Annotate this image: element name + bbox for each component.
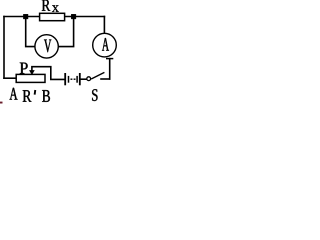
wire rheostat left xyxy=(4,77,16,79)
wire ammeter bottom to corner xyxy=(109,59,111,79)
label R' xyxy=(23,90,32,101)
wire voltmeter branch left xyxy=(26,17,35,47)
wire left vertical xyxy=(3,17,5,79)
node junction dot left xyxy=(23,14,28,19)
stray mark bottom-left xyxy=(0,102,3,104)
label P xyxy=(20,63,28,74)
resistor Rx box xyxy=(40,13,65,20)
battery cells xyxy=(65,73,80,85)
switch S blade xyxy=(91,72,104,79)
wire voltmeter branch right xyxy=(59,17,74,47)
ammeter bottom terminal bar xyxy=(106,58,113,60)
rheostat slider arrow P xyxy=(29,70,34,74)
wire right vertical to ammeter xyxy=(103,17,105,34)
rheostat R' resistance box xyxy=(16,74,45,82)
wire switch contact to corner xyxy=(101,78,110,80)
node junction dot right xyxy=(71,14,76,19)
label S xyxy=(92,89,97,101)
wire top xyxy=(4,16,104,18)
label B terminal xyxy=(42,90,50,102)
label A terminal xyxy=(10,88,18,100)
label prime xyxy=(34,90,37,95)
ammeter A xyxy=(93,33,117,57)
switch S pivot xyxy=(87,77,91,81)
wire wiper to battery xyxy=(32,67,65,80)
label Rx xyxy=(42,0,50,11)
voltmeter V xyxy=(35,35,58,58)
wire battery to switch xyxy=(80,78,87,80)
